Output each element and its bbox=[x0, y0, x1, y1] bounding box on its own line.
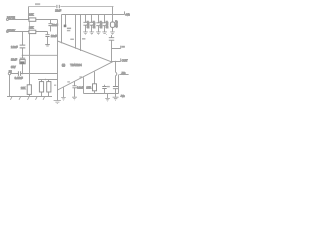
wire ladder between boxes bbox=[29, 22, 31, 30]
ground pin drop bbox=[63, 87, 65, 97]
svg-text:+Vs: +Vs bbox=[125, 12, 130, 16]
resistor R2 bbox=[41, 80, 43, 97]
node dark junction bbox=[64, 25, 67, 28]
svg-text:-Vs: -Vs bbox=[120, 94, 125, 98]
resistor R1 bbox=[29, 74, 31, 85]
svg-text:0.47uF: 0.47uF bbox=[15, 76, 23, 80]
wire input line bbox=[11, 73, 58, 75]
node IN terminal bbox=[8, 72, 10, 74]
capacitor C1 electrolytic bbox=[20, 58, 25, 64]
wire pin13 drop b bbox=[80, 15, 82, 52]
wire inverting input bbox=[38, 79, 58, 81]
wire top supply feed line bbox=[29, 6, 114, 8]
capacitor C sc bbox=[102, 87, 106, 89]
capacitor C chain bbox=[20, 45, 26, 48]
resistor R3 bbox=[48, 80, 50, 97]
capacitor C2 input series bbox=[18, 71, 20, 76]
capacitor C boot2 bbox=[111, 35, 113, 38]
resistor R mute bbox=[29, 18, 36, 21]
svg-text:22uF: 22uF bbox=[55, 8, 61, 12]
wire pin5 stub bbox=[112, 46, 121, 49]
svg-text:22K: 22K bbox=[21, 86, 26, 90]
wire -Vs stub bbox=[119, 74, 128, 76]
wire ladder to input line bbox=[29, 34, 31, 74]
wire mute pin drop bbox=[57, 20, 59, 42]
label pin 4 bbox=[67, 81, 70, 82]
svg-text:100nF: 100nF bbox=[87, 21, 90, 29]
svg-text:100uF: 100uF bbox=[93, 21, 96, 29]
label switch smudge bbox=[35, 3, 40, 5]
wire C stby leads bbox=[47, 32, 49, 35]
capacitor C5 bootstrap in top line bbox=[57, 5, 59, 8]
svg-text:-Vs: -Vs bbox=[121, 71, 126, 75]
ground hatching bbox=[10, 97, 44, 100]
svg-text:22K: 22K bbox=[29, 26, 34, 30]
wire chain to IN+ pin bbox=[23, 54, 58, 56]
ground C under bbox=[72, 97, 77, 100]
wire divider ladder drop bbox=[28, 7, 30, 20]
label pin 7 bbox=[70, 39, 74, 40]
svg-text:10K: 10K bbox=[29, 13, 34, 17]
wire C mute leads bbox=[50, 20, 52, 32]
node mute terminal bbox=[6, 19, 8, 21]
wire pin drop to -Vs rail bbox=[83, 77, 85, 93]
wire C stby return bbox=[47, 37, 49, 45]
capacitor Cd2 bbox=[91, 15, 93, 32]
wire -Vs bottom rail bbox=[84, 93, 119, 95]
wire output down with hop bbox=[115, 62, 117, 97]
node output junction bbox=[115, 61, 117, 63]
capacitor Cd1 bbox=[85, 15, 87, 32]
svg-text:TDA7294: TDA7294 bbox=[70, 63, 82, 67]
ground C stby bbox=[45, 44, 50, 46]
svg-text:470uF: 470uF bbox=[116, 20, 119, 28]
svg-text:0.1uF: 0.1uF bbox=[77, 86, 84, 90]
svg-text:100uF: 100uF bbox=[106, 21, 109, 29]
label value row a bbox=[67, 28, 71, 30]
wire boot drop right bbox=[112, 7, 114, 23]
label C sc value bbox=[107, 86, 110, 87]
svg-text:10uF: 10uF bbox=[11, 58, 17, 62]
op-amp U1 triangle bbox=[58, 41, 113, 90]
svg-text:35V: 35V bbox=[11, 65, 16, 69]
wire pin drop short bbox=[65, 15, 67, 26]
ground output bbox=[113, 97, 119, 100]
resistor R stby bbox=[29, 30, 36, 33]
ground sgnd corner bbox=[57, 90, 59, 100]
svg-text:10uF: 10uF bbox=[52, 23, 58, 27]
wire stby input bbox=[8, 31, 47, 33]
wire output bbox=[112, 58, 121, 61]
capacitor Cd4 bbox=[104, 15, 106, 32]
label pin 4a bbox=[54, 85, 56, 86]
resistor R sc bbox=[94, 72, 96, 94]
node junction feedback bbox=[45, 79, 46, 80]
svg-text:2.2uF: 2.2uF bbox=[11, 45, 18, 49]
wire mute input bbox=[8, 19, 57, 21]
svg-text:(+): (+) bbox=[62, 63, 65, 67]
capacitor Cd3 bbox=[98, 15, 100, 32]
svg-text:10uF: 10uF bbox=[51, 34, 57, 38]
wire pin13 drop a bbox=[75, 15, 77, 49]
svg-text:10R: 10R bbox=[86, 86, 91, 90]
capacitor Ce electrolytic bbox=[110, 22, 114, 27]
capacitor C under bbox=[74, 82, 76, 97]
label pin 13 bbox=[82, 38, 85, 39]
svg-text:OUT: OUT bbox=[122, 59, 128, 63]
wire +Vs rail bbox=[62, 11, 125, 14]
label pin 15 bbox=[79, 76, 82, 77]
wire IN terminal ground bbox=[9, 75, 11, 97]
node stby terminal bbox=[6, 31, 8, 33]
wire ground bus bbox=[7, 96, 52, 98]
node junction chain tap bbox=[22, 55, 24, 57]
capacitor C stby bbox=[45, 35, 49, 37]
wire boot2 to output bbox=[111, 40, 113, 61]
capacitor C zobel bbox=[113, 87, 118, 89]
wire stub down bbox=[118, 75, 120, 94]
ground -Vs rail bbox=[107, 94, 109, 99]
svg-text:100nF: 100nF bbox=[100, 21, 103, 29]
node junction chain-input bbox=[22, 73, 24, 75]
wire pin7 drop bbox=[61, 15, 63, 44]
label pin5 terminal bbox=[121, 46, 125, 48]
wire left divider chain bbox=[22, 32, 24, 74]
capacitor C mute bbox=[48, 24, 52, 26]
